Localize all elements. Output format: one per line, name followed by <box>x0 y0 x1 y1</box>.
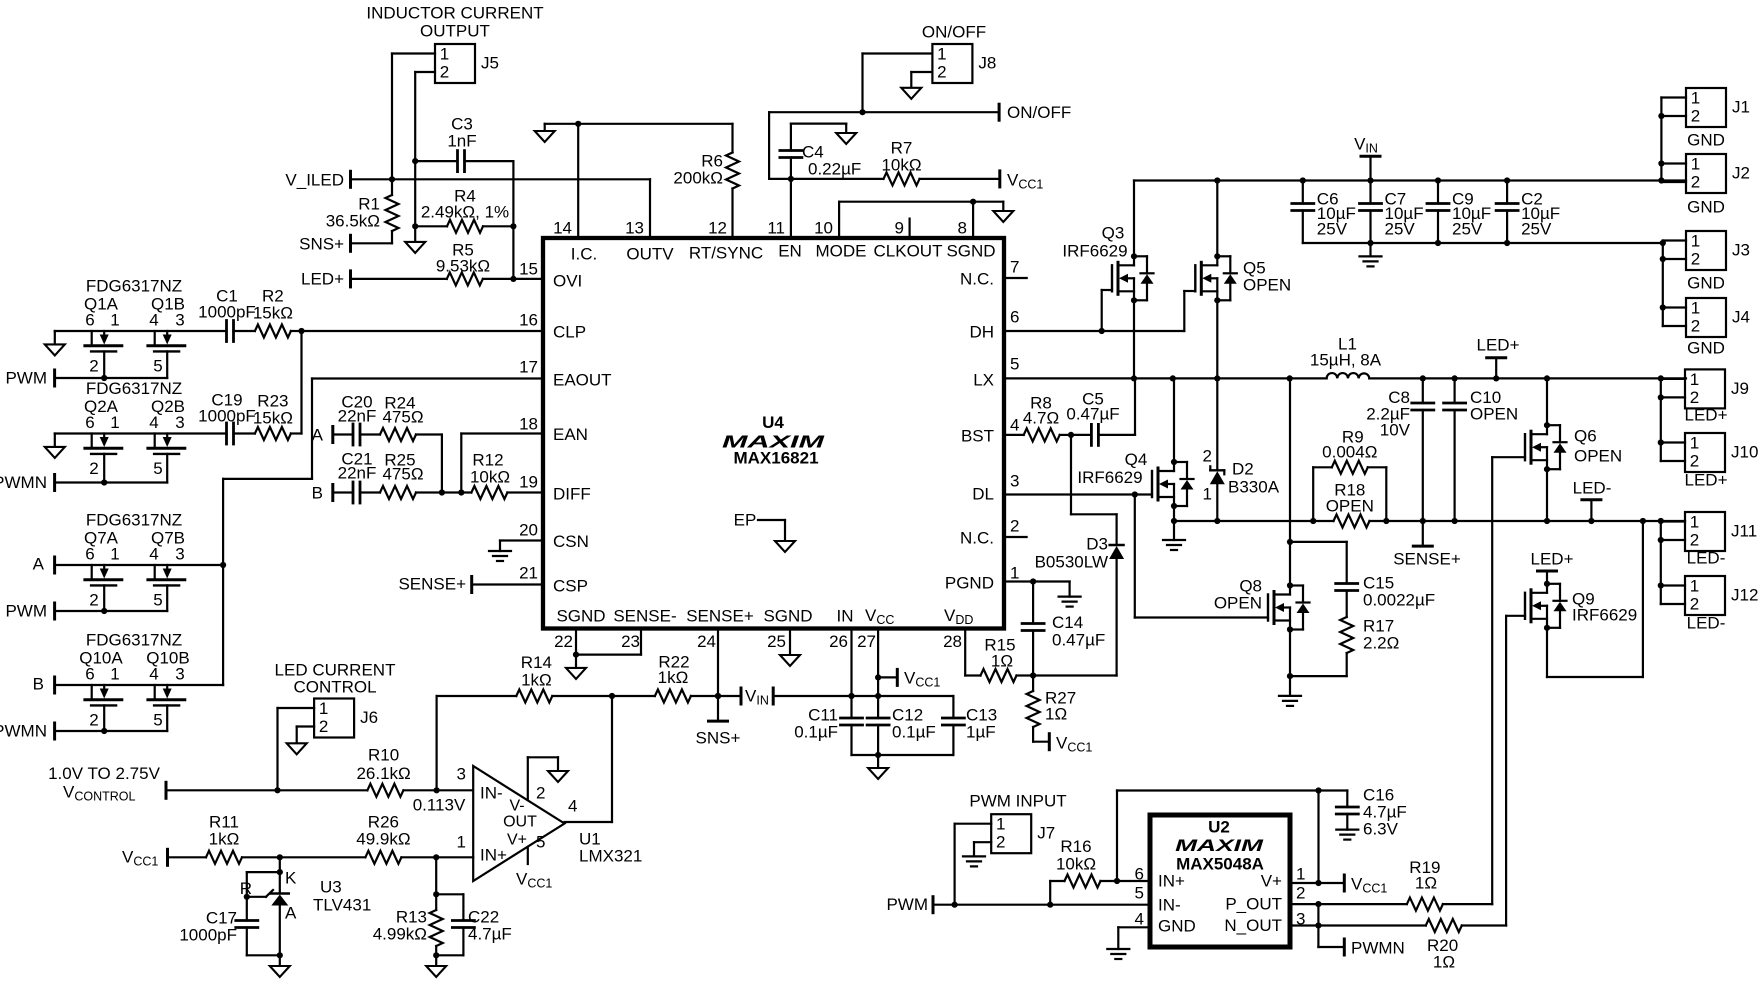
node LED+ (OVI) <box>301 270 351 289</box>
U4 MAXIM logo <box>722 432 825 452</box>
svg-text:OPEN: OPEN <box>1326 497 1374 516</box>
svg-text:6: 6 <box>85 545 94 564</box>
svg-text:DH: DH <box>969 323 994 342</box>
ground at pin25 <box>780 655 800 666</box>
svg-text:2: 2 <box>1691 317 1700 336</box>
U2 MAXIM logo <box>1175 835 1263 854</box>
wire Q9 gate to R20 <box>1506 616 1525 926</box>
wire J7 pin1 to PWM line <box>952 824 992 908</box>
svg-text:0.1µF: 0.1µF <box>794 723 838 742</box>
transistor Q5 OPEN <box>1195 253 1291 303</box>
svg-text:5: 5 <box>1135 884 1144 903</box>
svg-text:FDG6317NZ: FDG6317NZ <box>86 631 182 650</box>
svg-text:FDG6317NZ: FDG6317NZ <box>86 511 182 530</box>
resistor R9 <box>1313 428 1386 522</box>
svg-text:V_ILED: V_ILED <box>285 171 344 190</box>
ground at cap bank <box>1360 256 1382 266</box>
svg-text:10V: 10V <box>1380 421 1411 440</box>
svg-text:0.113V: 0.113V <box>413 796 466 815</box>
svg-text:6: 6 <box>85 413 94 432</box>
svg-text:MAX5048A: MAX5048A <box>1176 855 1264 874</box>
svg-text:1: 1 <box>110 665 119 684</box>
svg-text:IRF6629: IRF6629 <box>1572 606 1637 625</box>
svg-text:2: 2 <box>89 591 98 610</box>
svg-text:2: 2 <box>1296 884 1305 903</box>
svg-text:ON/OFF: ON/OFF <box>922 23 986 42</box>
svg-text:10kΩ: 10kΩ <box>470 468 510 487</box>
transistor Q4 IRF6629 <box>1077 450 1193 509</box>
resistor R11 <box>168 813 283 864</box>
svg-text:12: 12 <box>708 219 727 238</box>
wire Q6 drain from LX <box>1546 378 1548 425</box>
node V_ILED <box>285 171 350 190</box>
svg-text:0.1µF: 0.1µF <box>892 723 936 742</box>
wire MODE/SGND ground link <box>839 199 1003 238</box>
connector J7 <box>991 814 1055 853</box>
resistor R2 <box>234 287 302 338</box>
ground at C16 <box>1336 830 1358 840</box>
svg-text:1Ω: 1Ω <box>1415 874 1437 893</box>
svg-text:25: 25 <box>767 632 786 651</box>
IC U2 MAX5048A body <box>1150 815 1290 947</box>
svg-text:1Ω: 1Ω <box>1045 705 1067 724</box>
wire VCC pin27 net <box>875 629 881 719</box>
wire VIN local line <box>773 696 953 718</box>
svg-text:LX: LX <box>973 371 994 390</box>
resistor R14 <box>516 653 552 703</box>
resistor R8 <box>1004 394 1074 442</box>
capacitor C16 <box>1336 786 1407 839</box>
ground at SGND pin8 <box>993 211 1013 222</box>
svg-text:5: 5 <box>153 591 162 610</box>
svg-text:LED+: LED+ <box>301 270 344 289</box>
capacitor C2 <box>1496 181 1560 244</box>
svg-text:IN-: IN- <box>1158 896 1181 915</box>
svg-text:J12: J12 <box>1731 586 1758 605</box>
capacitor C19 <box>198 391 256 445</box>
svg-text:4.7Ω: 4.7Ω <box>1023 409 1059 428</box>
connector J11 <box>1685 512 1757 568</box>
node PWMN (Q10 gate) <box>0 722 55 741</box>
wire Q8 source to ground <box>1287 630 1293 696</box>
svg-text:IN+: IN+ <box>1158 872 1185 891</box>
svg-text:SGND: SGND <box>763 607 812 626</box>
wire PWMN rail Q2 <box>55 481 168 483</box>
wire Q8 drain from LX <box>1287 378 1293 585</box>
svg-text:23: 23 <box>621 632 640 651</box>
svg-text:2: 2 <box>89 711 98 730</box>
node SENSE+ under C8 <box>1393 546 1461 568</box>
wire SGND pin25 to ground <box>789 629 791 656</box>
svg-text:A: A <box>33 555 45 574</box>
node LED- on rail <box>1573 479 1612 522</box>
wire Q9 source loop to rail <box>1547 521 1643 677</box>
svg-text:PWM: PWM <box>5 602 47 621</box>
transistor Q1 FDG6317NZ dual PMOS <box>84 277 185 382</box>
svg-text:LED-: LED- <box>1687 549 1726 568</box>
ground at pin22 <box>566 668 586 679</box>
wire VIN rail <box>1134 177 1686 183</box>
svg-text:Q3: Q3 <box>1102 224 1125 243</box>
node LED+ on LX <box>1477 336 1520 379</box>
svg-text:R10: R10 <box>368 746 399 765</box>
svg-text:2.49kΩ, 1%: 2.49kΩ, 1% <box>421 203 509 222</box>
U4 top pin name labels <box>571 242 996 264</box>
capacitor C20 <box>333 393 380 446</box>
svg-text:PWM INPUT: PWM INPUT <box>969 792 1066 811</box>
svg-text:2: 2 <box>536 784 545 803</box>
svg-text:FDG6317NZ: FDG6317NZ <box>86 277 182 296</box>
svg-text:CONTROL: CONTROL <box>293 678 376 697</box>
inductor L1 <box>1310 335 1382 379</box>
svg-text:J10: J10 <box>1731 443 1758 462</box>
label ON/OFF <box>922 23 986 42</box>
op-amp U1 LMX321 <box>457 765 643 882</box>
U4 pin numbers <box>519 219 1019 652</box>
svg-text:FDG6317NZ: FDG6317NZ <box>86 379 182 398</box>
svg-text:U3: U3 <box>320 878 342 897</box>
capacitor C15 <box>1290 542 1435 617</box>
node A terminal <box>33 555 55 574</box>
svg-text:1Ω: 1Ω <box>991 652 1013 671</box>
svg-text:1: 1 <box>440 45 449 64</box>
svg-text:4: 4 <box>149 413 158 432</box>
svg-text:GND: GND <box>1687 339 1725 358</box>
wire Q5 source to LX and D2 <box>1214 300 1220 469</box>
ground at C11-C13 <box>868 768 888 779</box>
resistor R13 <box>373 857 443 966</box>
ground at Q8 source <box>1279 696 1301 706</box>
svg-text:J6: J6 <box>360 708 378 727</box>
wire PWMN rail Q10 <box>55 730 168 732</box>
svg-text:Q6: Q6 <box>1574 427 1597 446</box>
svg-text:1.0V TO 2.75V: 1.0V TO 2.75V <box>48 764 160 783</box>
svg-text:N.C.: N.C. <box>960 529 994 548</box>
svg-text:9: 9 <box>895 219 904 238</box>
svg-text:EAOUT: EAOUT <box>553 371 612 390</box>
wire Q5 drain to VIN rail <box>1214 177 1220 256</box>
svg-text:J9: J9 <box>1731 379 1749 398</box>
ground at Q1 <box>45 344 65 355</box>
wire V_ILED net <box>351 178 651 180</box>
svg-text:475Ω: 475Ω <box>382 465 423 484</box>
node SNS+ <box>299 235 350 254</box>
wire SGND pin22 / SENSE- pin23 to ground <box>573 629 641 668</box>
ground rail above U4 <box>545 124 733 131</box>
svg-text:10kΩ: 10kΩ <box>1056 855 1096 874</box>
capacitor C21 <box>333 450 380 504</box>
svg-text:2: 2 <box>1691 107 1700 126</box>
wire Q2 top rail <box>55 434 227 447</box>
svg-text:1: 1 <box>110 311 119 330</box>
svg-text:475Ω: 475Ω <box>382 408 423 427</box>
capacitor C1 <box>198 287 256 342</box>
svg-text:1: 1 <box>1690 577 1699 596</box>
node VCONTROL <box>48 764 166 804</box>
connector J3 <box>1686 231 1750 293</box>
svg-text:0.22µF: 0.22µF <box>808 160 861 179</box>
resistor R4 <box>415 187 513 233</box>
label INDUCTOR CURRENT OUTPUT <box>366 4 543 41</box>
svg-text:ON/OFF: ON/OFF <box>1007 103 1071 122</box>
svg-text:1: 1 <box>110 413 119 432</box>
svg-text:Q4: Q4 <box>1125 450 1148 469</box>
node VIN at R22 <box>740 688 743 704</box>
svg-text:K: K <box>285 869 297 888</box>
wire LX net <box>1004 375 1686 381</box>
svg-text:GND: GND <box>1687 131 1725 150</box>
svg-text:GND: GND <box>1687 274 1725 293</box>
svg-text:TLV431: TLV431 <box>313 896 371 915</box>
wire J8 pin2 to ground <box>911 72 932 88</box>
svg-text:26.1kΩ: 26.1kΩ <box>356 764 410 783</box>
svg-text:2: 2 <box>937 63 946 82</box>
svg-text:3: 3 <box>175 413 184 432</box>
svg-text:1: 1 <box>996 815 1005 834</box>
resistor R17 <box>1290 617 1399 677</box>
resistor R27 <box>1027 676 1077 742</box>
svg-text:SENSE-: SENSE- <box>613 607 676 626</box>
capacitor C12 <box>867 706 936 769</box>
resistor R24 <box>380 394 442 493</box>
wire PWM rail Q7 <box>55 610 168 612</box>
svg-text:J11: J11 <box>1731 522 1757 541</box>
label PWM INPUT <box>969 792 1066 811</box>
capacitor C9 <box>1427 181 1491 244</box>
wire Q4 drain to LX <box>1173 378 1175 462</box>
ground at PGND <box>1059 597 1081 607</box>
svg-text:BST: BST <box>961 427 994 446</box>
svg-text:SNS+: SNS+ <box>299 235 344 254</box>
svg-text:1: 1 <box>1690 513 1699 532</box>
wire Q8 gate from DL <box>1135 495 1268 618</box>
svg-text:OUTV: OUTV <box>626 245 674 264</box>
wire ON/OFF line <box>769 112 999 179</box>
svg-text:J8: J8 <box>978 54 996 73</box>
wire N.C. pin2 stub <box>1004 536 1027 538</box>
ground at J7 <box>963 856 985 866</box>
svg-text:25V: 25V <box>1521 220 1552 239</box>
node VCC1 at R27 <box>1049 734 1092 755</box>
svg-text:LMX321: LMX321 <box>579 847 642 866</box>
connector J6 <box>314 699 378 738</box>
capacitor C5 <box>1066 378 1135 445</box>
node PWM <box>886 895 933 914</box>
svg-text:2: 2 <box>1010 517 1019 536</box>
node B terminal <box>33 675 55 694</box>
node VCC1 at R7 <box>1000 171 1044 192</box>
svg-text:2: 2 <box>1690 531 1699 550</box>
svg-text:SGND: SGND <box>946 242 995 261</box>
node PWM (Q1 gate) <box>5 369 54 388</box>
svg-text:6: 6 <box>1135 865 1144 884</box>
wire Q6 source to rail <box>1546 469 1548 521</box>
ground symbol top <box>535 131 555 142</box>
svg-text:SENSE+: SENSE+ <box>686 607 754 626</box>
svg-text:J4: J4 <box>1732 308 1750 327</box>
svg-text:RT/SYNC: RT/SYNC <box>689 244 763 263</box>
wire N_OUT net <box>1290 922 1426 947</box>
svg-text:EAN: EAN <box>553 425 588 444</box>
svg-text:14: 14 <box>553 219 572 238</box>
svg-text:U2: U2 <box>1208 818 1230 837</box>
svg-text:1kΩ: 1kΩ <box>521 671 552 690</box>
capacitor C6 <box>1292 181 1356 244</box>
svg-text:13: 13 <box>625 219 644 238</box>
svg-text:21: 21 <box>519 564 538 583</box>
capacitor C17 <box>179 909 279 956</box>
node A flag at C20 <box>312 426 333 445</box>
capacitor C7 <box>1360 181 1424 244</box>
svg-text:36.5kΩ: 36.5kΩ <box>326 212 380 231</box>
svg-text:0.47µF: 0.47µF <box>1066 405 1119 424</box>
node LED+ at Q9 <box>1531 550 1574 584</box>
capacitor C11 <box>794 696 878 755</box>
capacitor C22 <box>436 894 512 955</box>
svg-text:LED+: LED+ <box>1531 550 1574 569</box>
ground at U2 <box>1107 949 1129 959</box>
node SNS+ at pin24 <box>696 721 741 747</box>
ground at U3 <box>270 966 290 977</box>
svg-text:DIFF: DIFF <box>553 485 591 504</box>
node PWMN at U2 <box>1344 939 1405 958</box>
resistor R18 OPEN <box>1326 481 1374 528</box>
svg-text:4: 4 <box>1010 416 1019 435</box>
ground at J8 pin2 <box>901 88 921 99</box>
diode D3 B0530LW <box>1035 435 1125 571</box>
wire J3/J4 bus <box>1660 240 1686 326</box>
svg-text:5: 5 <box>536 833 545 852</box>
wire U2 GND to ground <box>1118 927 1150 949</box>
wire C16 feed <box>1117 791 1347 882</box>
svg-text:19: 19 <box>519 473 538 492</box>
svg-text:15kΩ: 15kΩ <box>253 409 293 428</box>
svg-text:R16: R16 <box>1060 837 1091 856</box>
svg-text:OUT: OUT <box>503 814 537 831</box>
svg-text:2: 2 <box>1690 388 1699 407</box>
svg-text:A: A <box>285 904 297 923</box>
svg-text:16: 16 <box>519 311 538 330</box>
resistor R25 <box>380 451 471 500</box>
wire VCONTROL line <box>166 789 367 791</box>
resistor R10 <box>356 746 473 797</box>
svg-text:V+: V+ <box>507 832 527 849</box>
capacitor C4 <box>780 124 861 179</box>
svg-text:15: 15 <box>519 260 538 279</box>
svg-text:11: 11 <box>767 219 785 238</box>
transistor Q8 OPEN <box>1214 577 1310 633</box>
svg-text:IN-: IN- <box>480 784 503 803</box>
svg-text:DL: DL <box>972 485 994 504</box>
svg-text:4: 4 <box>568 797 577 816</box>
svg-text:3: 3 <box>175 665 184 684</box>
svg-text:OPEN: OPEN <box>1214 594 1262 613</box>
svg-text:6: 6 <box>1010 308 1019 327</box>
svg-text:J3: J3 <box>1732 241 1750 260</box>
U2 pin labels <box>1135 865 1306 936</box>
svg-text:1µF: 1µF <box>966 723 996 742</box>
svg-text:V+: V+ <box>1261 872 1282 891</box>
wire PWM rail Q1 <box>55 377 168 379</box>
wire EAN net <box>461 434 543 493</box>
svg-text:25V: 25V <box>1452 220 1483 239</box>
svg-text:25V: 25V <box>1317 220 1348 239</box>
svg-text:15kΩ: 15kΩ <box>253 304 293 323</box>
wire PGND/SENSE rail <box>1174 518 1685 524</box>
svg-text:R14: R14 <box>521 653 552 672</box>
node PWMN (Q2 gate) <box>0 473 55 492</box>
wire Q3 source to LX <box>1131 300 1137 381</box>
wire CLKOUT pin9 stub <box>908 219 910 238</box>
svg-text:D3: D3 <box>1086 535 1108 554</box>
wire J5 pin2 to C3/R4/ground <box>412 72 435 242</box>
svg-text:2: 2 <box>89 357 98 376</box>
svg-text:27: 27 <box>857 632 876 651</box>
svg-text:J2: J2 <box>1732 164 1750 183</box>
ground at C4 <box>836 133 856 144</box>
svg-text:26: 26 <box>829 632 848 651</box>
capacitor C10 OPEN <box>1444 378 1519 521</box>
svg-text:5: 5 <box>153 357 162 376</box>
svg-text:MAXIM: MAXIM <box>722 432 825 452</box>
svg-text:7: 7 <box>1010 258 1019 277</box>
wire J11/J12 bus <box>1658 521 1685 604</box>
svg-text:1nF: 1nF <box>447 132 476 151</box>
connector J4 <box>1686 298 1750 358</box>
U4 bottom pin name labels <box>556 606 973 627</box>
wire IN pin26 to VIN line <box>848 629 854 700</box>
node VCC1 at pin27 <box>878 669 940 690</box>
svg-text:SNS+: SNS+ <box>696 729 741 748</box>
svg-text:22: 22 <box>554 632 573 651</box>
svg-text:1kΩ: 1kΩ <box>658 668 689 687</box>
U4 right pin name labels <box>945 270 994 593</box>
svg-text:PWMN: PWMN <box>0 473 47 492</box>
svg-text:PWMN: PWMN <box>1351 939 1405 958</box>
svg-text:1: 1 <box>937 45 946 64</box>
transistor Q3 IRF6629 <box>1062 224 1153 304</box>
svg-text:17: 17 <box>519 358 538 377</box>
svg-text:SENSE+: SENSE+ <box>1393 550 1461 569</box>
ground at Q4 source <box>1163 540 1185 550</box>
svg-text:I.C.: I.C. <box>571 245 597 264</box>
svg-text:PGND: PGND <box>945 574 994 593</box>
svg-text:1kΩ: 1kΩ <box>209 830 240 849</box>
wire J6 pin2 to ground <box>297 727 314 744</box>
svg-text:22nF: 22nF <box>338 464 377 483</box>
svg-text:2: 2 <box>1690 595 1699 614</box>
connector J8 <box>932 44 996 83</box>
node VCC1 at U2 <box>1344 875 1387 896</box>
svg-text:IRF6629: IRF6629 <box>1062 242 1127 261</box>
wire U2 V+ net <box>1290 787 1344 886</box>
svg-text:LED+: LED+ <box>1477 336 1520 355</box>
wire PWM line to U2 IN- <box>933 902 1150 908</box>
svg-text:25V: 25V <box>1385 220 1416 239</box>
svg-text:MODE: MODE <box>816 242 867 261</box>
svg-text:1: 1 <box>1690 370 1699 389</box>
svg-text:N_OUT: N_OUT <box>1224 916 1282 935</box>
svg-text:2: 2 <box>1203 447 1212 466</box>
IC U4 MAX16821 controller body <box>543 238 1004 629</box>
ground at Q2 <box>45 447 65 458</box>
svg-text:1: 1 <box>1691 232 1700 251</box>
svg-text:J7: J7 <box>1037 824 1055 843</box>
svg-text:1000pF: 1000pF <box>179 926 237 945</box>
svg-text:4: 4 <box>149 665 158 684</box>
svg-text:B0530LW: B0530LW <box>1035 553 1108 572</box>
svg-text:C14: C14 <box>1052 613 1083 632</box>
